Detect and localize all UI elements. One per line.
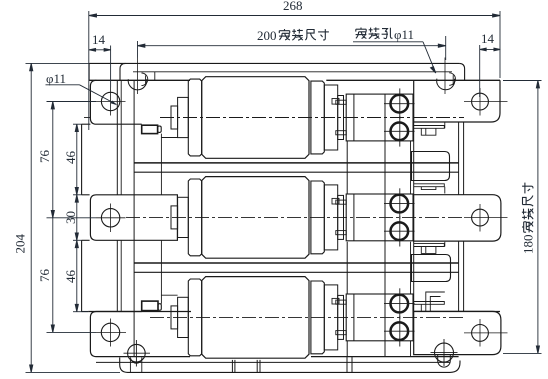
dim 46 top bbox=[76, 124, 78, 195]
dim 200 mounting bbox=[138, 45, 446, 47]
dim 14 right bbox=[480, 48, 501, 50]
body top inner line bbox=[133, 71, 452, 73]
between-pole verticals x410.5 bbox=[410, 141, 412, 194]
top mounting slot left bbox=[120, 63, 126, 80]
left edge upper bbox=[88, 63, 90, 80]
dim 268 bbox=[89, 15, 500, 17]
coil lug between pole2 and pole3 bbox=[412, 255, 451, 282]
mid-right plate bbox=[414, 195, 501, 241]
horizontal rails between pole2 and 3 bbox=[134, 262, 459, 264]
svg-text:200: 200 bbox=[257, 28, 277, 43]
bottom-right plate bbox=[414, 311, 501, 354]
svg-text:30: 30 bbox=[63, 211, 78, 224]
aux contact square top bbox=[142, 125, 158, 133]
left inner vertical x134 bbox=[133, 80, 135, 356]
hanging tab below top plate bbox=[421, 128, 436, 135]
left inner vertical x119 upper bbox=[116, 80, 118, 195]
base plate top line bbox=[96, 361, 451, 363]
left inner vertical x119 lower bbox=[116, 240, 118, 311]
bottom feet line bbox=[88, 311, 191, 313]
svg-text:180: 180 bbox=[521, 235, 536, 255]
pole 3 centre line bbox=[150, 316, 464, 318]
text 安装孔φ11 bbox=[356, 28, 367, 39]
right interior verticals bbox=[346, 141, 348, 194]
svg-text:76: 76 bbox=[37, 150, 52, 164]
pole 2 assembly bbox=[171, 177, 415, 259]
pole 3 assembly bbox=[171, 277, 415, 359]
top feet line bbox=[89, 79, 190, 81]
svg-text:46: 46 bbox=[63, 151, 78, 165]
body right edge segments bbox=[458, 122, 460, 195]
svg-text:76: 76 bbox=[37, 269, 52, 283]
top mounting slot right bbox=[459, 63, 465, 80]
text 安装尺寸 after 200 bbox=[279, 29, 290, 40]
inter-plate small rects top bbox=[414, 126, 445, 129]
bottom feet line right part bbox=[311, 356, 459, 358]
left inner vertical x158 lower bbox=[160, 240, 162, 295]
svg-text:46: 46 bbox=[63, 270, 78, 284]
dim 180 mounting bbox=[537, 81, 539, 354]
aux contact square bottom bbox=[142, 301, 158, 311]
svg-text:φ11: φ11 bbox=[46, 71, 66, 86]
bottom-left foot hole bbox=[101, 323, 119, 341]
bottom-right plate hole bbox=[472, 325, 489, 342]
top-left mounting foot bbox=[90, 80, 141, 124]
pole 1 centre line bbox=[84, 117, 90, 119]
svg-text:φ11: φ11 bbox=[394, 27, 414, 42]
bottom feet top line right part bbox=[414, 311, 500, 313]
top-right plate hole bbox=[472, 93, 489, 110]
left block lower bbox=[81, 240, 83, 311]
left block upper bbox=[81, 124, 83, 195]
top-right plate bbox=[414, 80, 500, 122]
leader 安装孔φ11 bbox=[353, 41, 423, 43]
svg-text:268: 268 bbox=[283, 0, 303, 13]
tab hole bbox=[101, 209, 119, 227]
coil lug between pole1 and pole2 bbox=[412, 152, 450, 181]
left inner vertical x158 upper bbox=[160, 138, 162, 195]
bottom-left mounting foot bbox=[90, 312, 190, 357]
middle left tab bbox=[90, 195, 177, 241]
mid-right plate hole bbox=[472, 209, 489, 226]
dim 76 top bbox=[52, 102, 54, 218]
bottom mounting slot left bbox=[128, 344, 146, 362]
bottom base plate bbox=[120, 358, 460, 373]
svg-text:14: 14 bbox=[481, 31, 495, 46]
svg-text:14: 14 bbox=[92, 32, 106, 47]
top cover small vertical bbox=[154, 72, 156, 81]
hanging tab below mid plate bbox=[421, 247, 436, 254]
dim 76 bottom bbox=[52, 218, 54, 333]
dim 30 bbox=[76, 195, 78, 241]
dim 204 bbox=[30, 63, 32, 372]
bottom connector verticals bbox=[231, 360, 233, 373]
tab above mid plate bbox=[421, 187, 436, 190]
dim 46 bottom bbox=[76, 240, 78, 311]
pole 1 assembly bbox=[171, 77, 415, 159]
dim 14 left bbox=[89, 49, 111, 51]
horizontal rails between pole1 and 2 bbox=[134, 162, 459, 164]
pole 2 centre line bbox=[126, 216, 464, 218]
text 180安装尺寸 vertical bbox=[521, 183, 536, 254]
body top edge bbox=[89, 62, 459, 64]
svg-text:204: 204 bbox=[13, 234, 28, 254]
bottom mounting slot right bbox=[435, 343, 454, 362]
nested corner structure above bottom plate bbox=[420, 304, 422, 311]
top-left foot hole bbox=[101, 92, 119, 110]
